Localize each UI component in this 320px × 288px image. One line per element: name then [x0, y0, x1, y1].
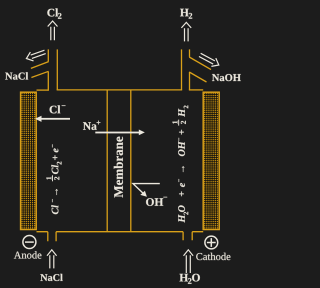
arrow Cl- left — [35, 116, 70, 122]
arrow Cl2 up — [48, 21, 58, 40]
electrode cathode plate — [203, 92, 219, 229]
label Na+ ion — [83, 121, 100, 130]
wire left spout upper diagonal — [31, 62, 49, 69]
label NaCl inlet — [40, 274, 62, 281]
wire cell top wall centre — [57, 89, 182, 91]
electrode anode plate — [21, 92, 37, 229]
wire cell top wall left — [37, 89, 49, 91]
label H2O inlet — [180, 274, 200, 284]
arrow H2 up — [181, 22, 191, 41]
wire left spout lower diagonal — [31, 71, 48, 77]
cathode half-reaction H2O to H2 — [172, 105, 188, 222]
label Cl2 gas — [47, 8, 61, 18]
arrow H2O inlet up — [184, 250, 194, 273]
wire right chimney left wall — [181, 49, 183, 90]
label H2 gas — [180, 9, 192, 19]
wire bottom left inlet channel — [48, 232, 56, 242]
wire right chimney right wall — [189, 49, 191, 90]
wire bottom right inlet channel — [183, 232, 192, 241]
label Anode — [14, 251, 42, 258]
arrow NaOH outflow — [198, 51, 221, 69]
anode half-reaction Cl- to Cl2 — [46, 144, 61, 214]
wire left chimney right wall — [56, 49, 58, 90]
arrow OH- deflected — [133, 184, 160, 197]
label NaCl outflow — [5, 72, 28, 79]
membrane right wall — [130, 90, 132, 232]
wire left chimney left wall — [47, 49, 49, 90]
wire cell bottom wall — [37, 231, 204, 233]
label Cl- ion — [50, 105, 66, 113]
label OH- ion — [146, 197, 167, 206]
arrow NaCl outflow — [25, 47, 47, 62]
arrow Na+ right — [95, 130, 145, 136]
membrane left wall — [106, 90, 108, 232]
wire cell top wall right — [189, 89, 203, 91]
wire right spout lower diagonal — [189, 72, 206, 82]
label Cathode — [196, 253, 230, 260]
anode terminal minus — [23, 236, 36, 249]
label NaOH outflow — [212, 74, 241, 81]
wire right spout upper diagonal — [189, 57, 211, 70]
arrow NaCl inlet up — [47, 250, 57, 269]
label Membrane — [114, 137, 123, 198]
cathode terminal plus — [205, 236, 218, 249]
